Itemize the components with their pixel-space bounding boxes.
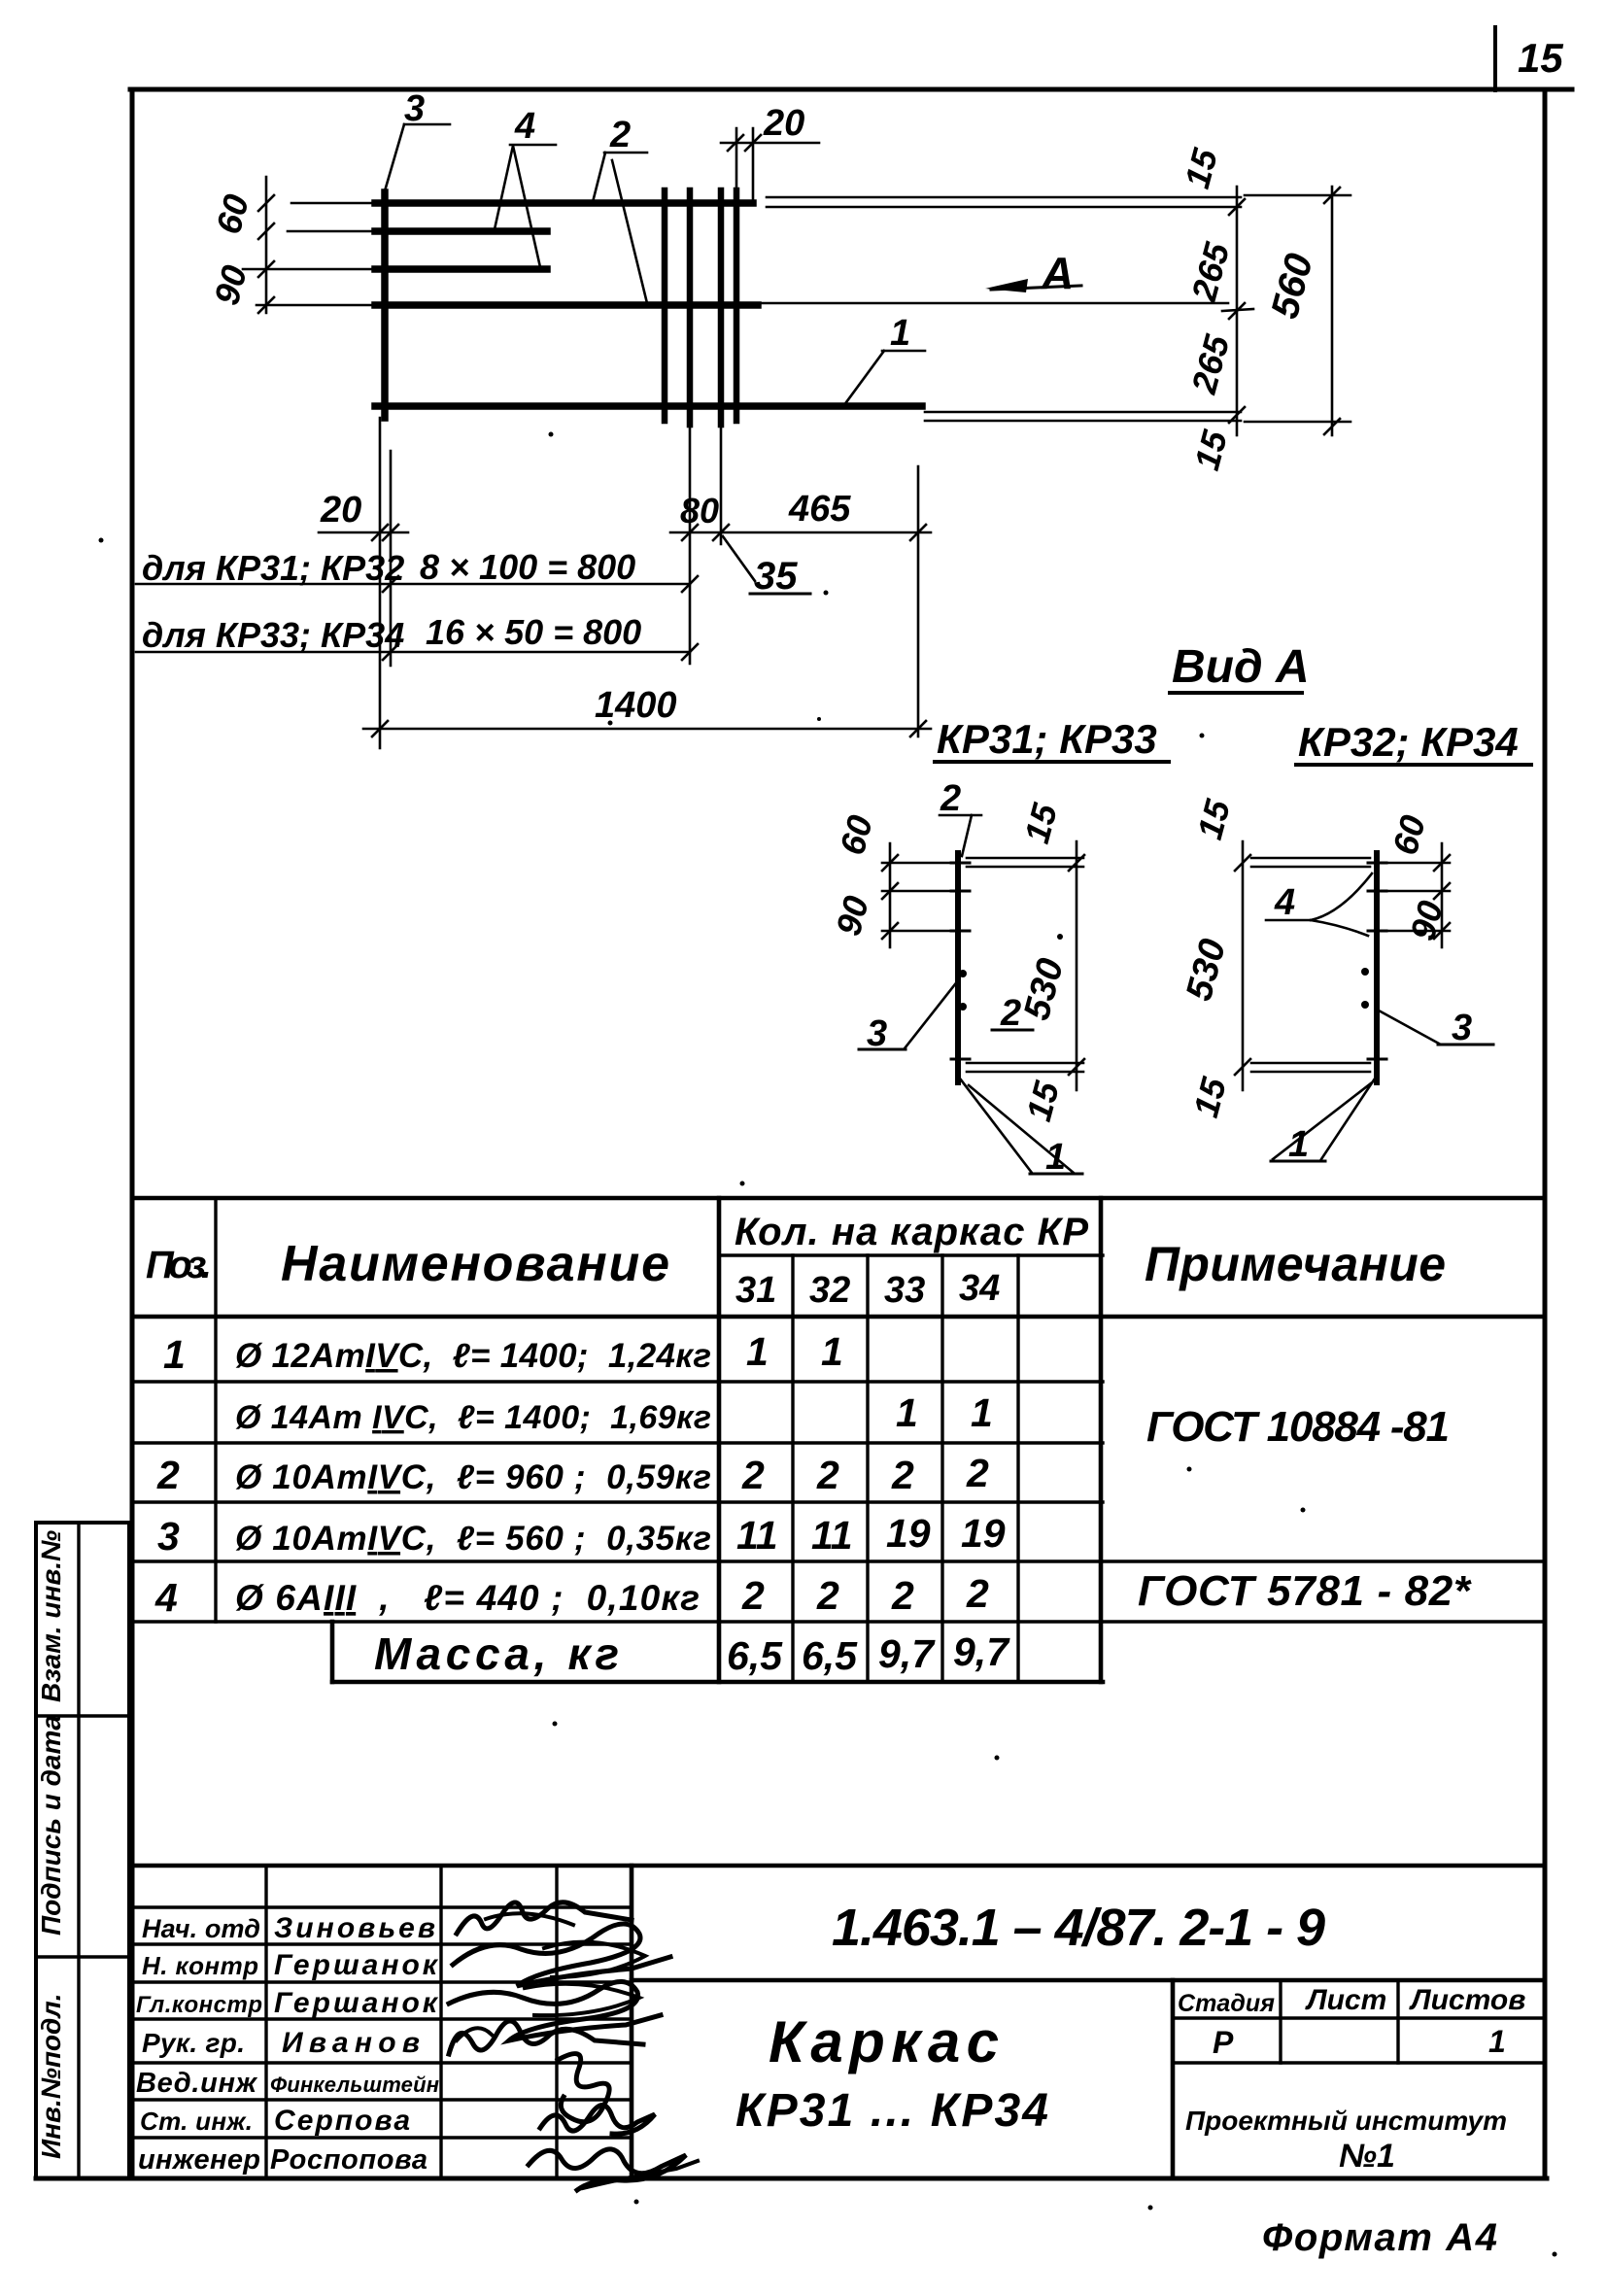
view arrow A head [985, 279, 1028, 292]
signature ivanov [449, 2021, 643, 2054]
left view stirrup tick 2 [951, 890, 970, 893]
bar 4 upper short [375, 227, 547, 235]
column empty-note [1099, 1198, 1104, 1682]
svg-text:2: 2 [1000, 993, 1021, 1034]
svg-text:№1: №1 [1339, 2138, 1395, 2175]
svg-text:Серпова: Серпова [274, 2105, 410, 2137]
svg-text:2: 2 [741, 1453, 765, 1497]
extension x742 [720, 425, 723, 544]
frame bottom border [36, 2176, 1547, 2181]
svg-text:31: 31 [735, 1270, 776, 1311]
frame top border [130, 87, 1572, 92]
right view stirrup tick 2 [1368, 890, 1386, 893]
svg-text:Ø 10АтIVС, ℓ= 560 ; 0,35кг: Ø 10АтIVС, ℓ= 560 ; 0,35кг [235, 1520, 711, 1558]
svg-text:КР31; КР33: КР31; КР33 [937, 716, 1157, 762]
left view stirrup tick 4 [951, 1058, 970, 1061]
bar 2 middle longitudinal thick [375, 301, 758, 309]
svg-text:Взам. инв.№: Взам. инв.№ [36, 1530, 66, 1702]
bar 3 leftmost vertical stirrup [381, 192, 389, 418]
svg-text:11: 11 [811, 1513, 853, 1558]
svg-text:1: 1 [971, 1390, 993, 1435]
dim 560 line [1331, 187, 1334, 435]
signature col 3 [555, 1866, 558, 2178]
header KR32 KR34 underline [1296, 763, 1531, 767]
svg-text:инженер: инженер [138, 2144, 260, 2176]
svg-text:Примечание: Примечание [1145, 1237, 1446, 1291]
svg-text:Н. контр: Н. контр [142, 1951, 258, 1980]
svg-text:2: 2 [609, 115, 631, 155]
signature zinoviev [457, 1902, 632, 1934]
right view top edge double line a [1251, 857, 1370, 860]
svg-text:3: 3 [404, 88, 425, 129]
G_STRIP [36, 1523, 129, 2178]
left view label 1 leader a [960, 1079, 1032, 1173]
right view bar 3 vertical [1374, 853, 1380, 1082]
dim chain 15-265-265-15 line [1236, 187, 1239, 435]
left view label 1 leader b [969, 1085, 1074, 1173]
left view stirrup tick 3 [951, 930, 970, 933]
column 31-32 [791, 1255, 794, 1682]
label 4 leader to upper bar [495, 146, 513, 229]
tick at 15 top [1229, 199, 1245, 215]
left dim ext to bar 1 [291, 202, 371, 205]
tick at 265 mid [1229, 303, 1245, 319]
scan speck 10 [553, 1722, 558, 1727]
extension x402 [390, 451, 393, 666]
scan speck 4 [817, 717, 821, 721]
svg-text:3: 3 [867, 1013, 887, 1054]
right view tick 90 [1434, 923, 1450, 939]
signature rospopova tail [583, 2161, 698, 2188]
column 34-empty [1016, 1255, 1019, 1682]
extension x945 [917, 466, 920, 737]
svg-text:2: 2 [816, 1573, 839, 1618]
signature col 1 [264, 1866, 267, 2178]
left dim tick y209 [258, 195, 274, 211]
right view label 4 shelf [1266, 919, 1311, 922]
scan speck 7 [740, 1182, 745, 1186]
left dim 60-90 vertical line [265, 177, 268, 313]
svg-text:1: 1 [896, 1390, 918, 1435]
label 2 leader to top bar [593, 153, 605, 202]
G_TABLE [132, 1198, 1545, 1682]
left view bottom edge double line b [967, 1071, 1083, 1074]
left view tick 90 [882, 923, 898, 939]
table top border [132, 1196, 1545, 1201]
dim 20 top tick a [728, 135, 743, 151]
label 35 underline [750, 593, 810, 596]
tick 8x100 left [383, 576, 398, 592]
left view dim line 15-530-15 [1076, 841, 1078, 1090]
dim 20 top extension b [752, 128, 755, 203]
table subheader divider [719, 1253, 1103, 1256]
dim 20 top extension a [735, 128, 738, 190]
right view stirrup dot 1 [1361, 968, 1369, 976]
stage col 2 [1396, 1980, 1399, 2063]
svg-text:19: 19 [886, 1511, 931, 1556]
left view tick 60a [882, 855, 898, 871]
left dim tick y277 [258, 261, 274, 277]
scan speck 12 [634, 2200, 639, 2205]
svg-text:КР32; КР34: КР32; КР34 [1298, 719, 1519, 765]
svg-text:9,7: 9,7 [953, 1629, 1010, 1674]
svg-text:6,5: 6,5 [802, 1633, 858, 1678]
right view top edge double line b [1251, 866, 1370, 869]
column 32-33 [866, 1255, 869, 1682]
bar 2 top thin continuation lower line [767, 206, 1241, 209]
left view label 3 leader [905, 984, 955, 1048]
column 33-34 [940, 1255, 943, 1682]
scan speck 5 [1200, 734, 1205, 738]
signature finkelshtein [558, 2054, 609, 2122]
dim 8x100 line [136, 583, 690, 586]
right view bottom edge double line a [1251, 1062, 1370, 1065]
svg-text:2: 2 [891, 1453, 914, 1497]
svg-text:Зиновьев: Зиновьев [274, 1912, 435, 1944]
left view top edge double line a [967, 857, 1083, 860]
table row line 1 [132, 1380, 1103, 1383]
svg-text:Гершанок: Гершанок [274, 1987, 439, 2019]
bar 2 middle thin continuation [758, 302, 1228, 305]
scan speck 2 [824, 591, 829, 596]
left view bar 2 vertical [955, 853, 961, 1082]
right view stirrup tick 4 [1368, 1058, 1386, 1061]
stirrup cluster bar c with lower extension [718, 190, 725, 425]
svg-text:3: 3 [157, 1514, 180, 1559]
strip cell divider 2 [36, 1955, 129, 1958]
strip inner divider [77, 1523, 80, 2178]
svg-text:19: 19 [961, 1511, 1006, 1556]
svg-text:2: 2 [966, 1451, 989, 1495]
signature gershanok 2 [449, 1981, 661, 2040]
table header bottom border [132, 1315, 1545, 1319]
svg-text:1: 1 [1488, 2024, 1506, 2059]
svg-text:Роспопова: Роспопова [270, 2144, 427, 2176]
left view left dim line [889, 843, 892, 947]
right view tick bottom [1235, 1059, 1250, 1075]
tick 80 left [682, 525, 698, 540]
svg-text:ГОСТ 10884 -81: ГОСТ 10884 -81 [1146, 1403, 1450, 1451]
svg-text:Инв.№подл.: Инв.№подл. [36, 1993, 66, 2159]
left view label 2 top leader [962, 815, 972, 856]
right view label 4 leader b [1311, 920, 1368, 936]
dim 20 top line [721, 142, 819, 145]
stirrup cluster bar d with upper extension [734, 190, 740, 421]
table row line 4 [132, 1559, 1545, 1562]
svg-text:465: 465 [788, 489, 851, 530]
svg-text:6,5: 6,5 [727, 1633, 783, 1678]
svg-text:1: 1 [890, 313, 910, 354]
tick 1400 right [910, 721, 926, 737]
scan speck 3 [608, 721, 613, 726]
svg-text:Нач. отд: Нач. отд [142, 1914, 260, 1943]
table row line 3 [132, 1500, 1103, 1503]
right view tick 60b [1434, 883, 1450, 899]
signature ivanov hook [457, 2028, 492, 2040]
signature row 6 [132, 2098, 632, 2101]
svg-text:Листов: Листов [1409, 1984, 1525, 2016]
svg-text:Гл.констр: Гл.констр [136, 1992, 262, 2018]
tick 560 bottom [1324, 419, 1340, 434]
svg-text:Ст. инж.: Ст. инж. [140, 2107, 253, 2136]
right view stirrup tick 3 [1368, 930, 1386, 933]
svg-text:33: 33 [884, 1270, 925, 1311]
titleblock top border [132, 1864, 1545, 1868]
svg-text:8 × 100 = 800: 8 × 100 = 800 [420, 547, 635, 587]
tick 560 top [1324, 188, 1340, 203]
left dim tick y314 [258, 297, 274, 313]
right width dim extension bottom [1245, 421, 1351, 424]
signature serpova [540, 2105, 655, 2134]
svg-text:80: 80 [680, 491, 719, 531]
svg-text:Ø 6АIII , ℓ= 440 ; 0,10кг: Ø 6АIII , ℓ= 440 ; 0,10кг [235, 1578, 700, 1618]
scan speck 15 [99, 538, 104, 543]
right width dim extension middle [1222, 309, 1253, 311]
svg-text:4: 4 [154, 1575, 178, 1620]
right view right dim line [1441, 843, 1444, 947]
signature row 7 [132, 2136, 632, 2139]
svg-text:Поз.: Поз. [146, 1244, 212, 1286]
frame left border [130, 89, 135, 2178]
scan speck 14 [1553, 2252, 1557, 2257]
label 35 leader [723, 536, 755, 581]
right view bottom edge double line b [1251, 1071, 1370, 1074]
tick 465 right [910, 525, 926, 540]
stage header divider [1173, 2016, 1545, 2019]
signature col 2 [439, 1866, 442, 2178]
left view ext h 2 [882, 890, 960, 893]
header KR31 KR33 underline [935, 760, 1169, 764]
signature row 1 [132, 1905, 632, 1908]
svg-text:Лист: Лист [1305, 1984, 1386, 2016]
svg-text:3: 3 [1452, 1008, 1472, 1048]
left view stirrup dot 1 [959, 970, 967, 977]
signature gershanok 2 loop [525, 1984, 639, 2015]
svg-text:15: 15 [1518, 35, 1563, 81]
tick at 265 low [1229, 407, 1245, 423]
right view label 3 leader [1379, 1011, 1439, 1044]
table row line 5 [132, 1620, 1545, 1623]
right view stirrup tick 1 [1368, 862, 1386, 865]
label 4 leader to lower bar [513, 146, 540, 267]
tick 16x50 left [383, 644, 398, 660]
svg-text:2: 2 [741, 1573, 765, 1618]
column name right [717, 1198, 722, 1682]
svg-text:2: 2 [891, 1573, 914, 1618]
view A title underline [1170, 691, 1302, 695]
dim 80-465 line [670, 531, 931, 534]
svg-text:16 × 50 = 800: 16 × 50 = 800 [426, 612, 641, 652]
G_VIDA [828, 641, 1531, 1178]
label 2 leader to middle bar [612, 160, 647, 303]
tick 1400 left [372, 721, 388, 737]
svg-text:Гершанок: Гершанок [274, 1949, 439, 1981]
left view stirrup tick 1 [951, 862, 970, 865]
right view label 1 leader b [1321, 1079, 1375, 1159]
signature table right edge [630, 1866, 634, 2178]
svg-text:9,7: 9,7 [878, 1631, 936, 1676]
svg-text:Кол. на каркас КР: Кол. на каркас КР [735, 1211, 1088, 1253]
left view label 3 underline [859, 1048, 906, 1051]
left view ext h 1 [882, 862, 960, 865]
frame right border [1543, 89, 1548, 2178]
svg-text:Подпись и дата: Подпись и дата [36, 1715, 66, 1936]
right view tick 60a [1434, 855, 1450, 871]
right view stirrup dot 2 [1361, 1001, 1369, 1009]
signature row 3 [132, 1980, 632, 1983]
svg-text:Проектный институт: Проектный институт [1185, 2106, 1507, 2136]
svg-text:11: 11 [736, 1513, 778, 1558]
label 3 leader [384, 124, 404, 194]
left view label 2 mid underline [992, 1029, 1033, 1032]
svg-text:Р: Р [1213, 2025, 1234, 2060]
tick 80 right [713, 525, 729, 540]
left view label 1 underline [1030, 1173, 1082, 1176]
right view label 1 underline [1271, 1160, 1325, 1163]
svg-text:34: 34 [959, 1268, 1000, 1309]
svg-text:Вед.инж: Вед.инж [136, 2068, 258, 2099]
dim 1400 line [363, 728, 931, 731]
svg-text:1.463.1 – 4/87. 2-1 - 9: 1.463.1 – 4/87. 2-1 - 9 [832, 1899, 1325, 1957]
signature row 5 [132, 2061, 632, 2064]
svg-text:для КР33; КР34: для КР33; КР34 [142, 615, 404, 655]
svg-text:Финкельштейн: Финкельштейн [270, 2073, 439, 2097]
label 2 leader shelf [604, 152, 647, 154]
svg-text:20: 20 [320, 490, 361, 531]
bar 1 bottom thin continuation upper line [925, 411, 1241, 414]
svg-text:20: 20 [763, 103, 804, 144]
stirrup cluster bar b with lower extension [687, 190, 694, 425]
left view bottom edge double line a [967, 1062, 1083, 1065]
right width dim extension top [1245, 194, 1351, 197]
svg-text:1: 1 [1045, 1137, 1066, 1178]
tick 16x50 right [682, 644, 698, 660]
scan speck 1 [549, 432, 554, 437]
right view ext h 3 [1374, 930, 1450, 933]
svg-text:1: 1 [746, 1329, 769, 1374]
scan speck 6 [1057, 934, 1063, 940]
svg-text:2: 2 [966, 1571, 989, 1616]
svg-text:35: 35 [754, 555, 798, 598]
svg-text:Масса, кг: Масса, кг [374, 1628, 619, 1679]
svg-text:Наименование: Наименование [281, 1236, 669, 1292]
right view tick top [1235, 855, 1250, 871]
svg-text:4: 4 [514, 106, 535, 147]
G_TITLEBLOCK [132, 1866, 1545, 2190]
stage col 1 [1279, 1980, 1282, 2063]
sheet number separator line [1493, 27, 1497, 90]
strip cell divider 1 [36, 1714, 129, 1717]
signature row 4 [132, 2017, 632, 2020]
left view tick top [1069, 855, 1084, 871]
svg-text:Ø 12АтIVС, ℓ= 1400; 1,24кг: Ø 12АтIVС, ℓ= 1400; 1,24кг [235, 1337, 711, 1375]
svg-text:1: 1 [821, 1329, 843, 1374]
svg-text:Ø 14Ат IVС, ℓ= 1400; 1,69кг: Ø 14Ат IVС, ℓ= 1400; 1,69кг [235, 1399, 711, 1436]
scan speck 8 [1187, 1467, 1192, 1472]
table row line 2 [132, 1441, 1103, 1444]
svg-text:Стадия: Стадия [1178, 1990, 1275, 2017]
svg-text:2: 2 [940, 778, 961, 819]
left view ext h 3 [882, 930, 960, 933]
right view label 3 underline [1438, 1044, 1493, 1046]
left dim tick y238 [258, 223, 274, 239]
left view stirrup dot 2 [959, 1003, 967, 1011]
mass row bottom [332, 1680, 1103, 1685]
dim 20 lower line [319, 531, 408, 534]
label 3 leader shelf [404, 123, 450, 126]
svg-text:Формат А4: Формат А4 [1262, 2216, 1497, 2259]
svg-text:для КР31; КР32: для КР31; КР32 [142, 548, 404, 588]
dim 20 lower tick b [383, 525, 398, 540]
signature rospopova [529, 2149, 686, 2190]
signature gershanok 1 loop [544, 1942, 645, 1977]
label 4 leader shelf [510, 144, 556, 147]
right view ext h 1 [1374, 862, 1450, 865]
label 1 leader shelf [882, 350, 925, 353]
svg-text:32: 32 [809, 1270, 850, 1311]
stage row divider [1173, 2061, 1545, 2064]
left dim ext to bar 2 [288, 230, 371, 233]
bar 1 bottom thin continuation lower line [925, 420, 1241, 423]
right view label 4 leader a [1311, 874, 1372, 920]
G_PLAN [375, 190, 1241, 425]
svg-text:Ø 10АтIVС, ℓ= 960 ; 0,59кг: Ø 10АтIVС, ℓ= 960 ; 0,59кг [235, 1458, 711, 1496]
view arrow A line [991, 286, 1081, 290]
left dim ext to bar 3 [243, 268, 371, 271]
G_PLANDIMS [136, 88, 1351, 748]
tick 8x100 right [682, 576, 698, 592]
svg-text:Рук. гр.: Рук. гр. [142, 2028, 245, 2058]
dim 20 top tick b [745, 135, 761, 151]
bar 2 top thin continuation upper line [767, 196, 1241, 199]
doc number divider [632, 1978, 1545, 1983]
title area right divider [1171, 1980, 1176, 2178]
left view label 2 top shelf [940, 814, 981, 817]
scan speck 9 [1301, 1508, 1306, 1513]
scan speck 11 [995, 1756, 1000, 1761]
bar 1 bottom main longitudinal [375, 402, 922, 410]
dim 16x50 line [136, 651, 690, 654]
extension x710 [689, 425, 692, 664]
signature zinoviev tail [486, 1913, 573, 1925]
left view tick 60b [882, 883, 898, 899]
left dim ext to bar 4 [256, 304, 371, 307]
bar 2 top longitudinal (thick part) [375, 199, 753, 207]
scan speck 13 [1148, 2206, 1153, 2210]
svg-text:1400: 1400 [595, 685, 677, 726]
left view tick bottom [1069, 1059, 1084, 1075]
svg-text:1: 1 [163, 1332, 186, 1377]
svg-text:КР31 ... КР34: КР31 ... КР34 [735, 2085, 1048, 2137]
svg-text:2: 2 [816, 1453, 839, 1497]
svg-text:2: 2 [156, 1453, 180, 1497]
svg-text:4: 4 [1274, 882, 1295, 923]
right view label 1 leader a [1273, 1083, 1371, 1159]
right view dim line 15-530-15 [1242, 841, 1245, 1090]
signature row 2 [132, 1942, 632, 1945]
svg-text:1: 1 [1288, 1124, 1309, 1165]
label 1 leader [846, 351, 884, 402]
bar 4 lower short [375, 265, 547, 273]
svg-text:ГОСТ 5781 - 82*: ГОСТ 5781 - 82* [1138, 1567, 1472, 1615]
right view ext h 2 [1374, 890, 1450, 893]
svg-text:А: А [1041, 248, 1074, 298]
dim 20 lower tick a [372, 525, 388, 540]
signature gershanok 1 [453, 1924, 670, 1986]
extension below bar3 [379, 418, 382, 748]
mass row left edge [330, 1622, 335, 1682]
svg-text:Вид А: Вид А [1172, 641, 1310, 693]
